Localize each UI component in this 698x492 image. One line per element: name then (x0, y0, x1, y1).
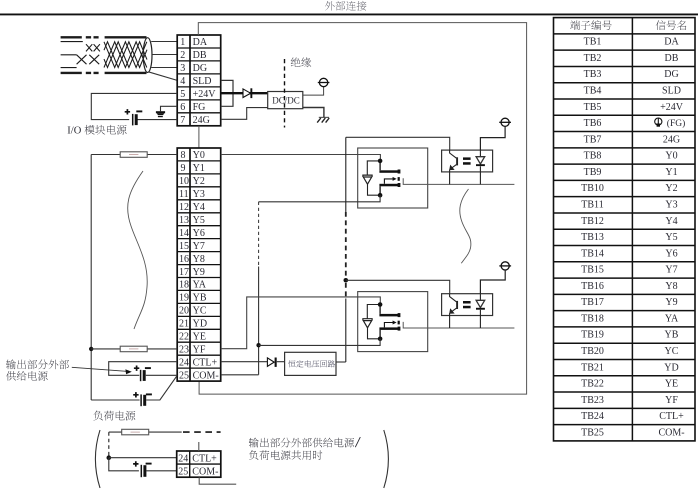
svg-text:TB9: TB9 (584, 167, 602, 178)
output circuit YF box (358, 292, 428, 352)
svg-text:TB20: TB20 (581, 346, 604, 357)
svg-text:Y3: Y3 (193, 189, 205, 200)
wire +24V pin5 to power loop (91, 93, 177, 119)
battery shared supply (133, 461, 152, 477)
svg-text:TB13: TB13 (581, 232, 604, 243)
wire CTL+ to external supply battery (109, 362, 178, 376)
terminal block pins 1-7 (177, 35, 221, 126)
wire to CTL+ bottom (109, 457, 177, 459)
svg-text:2: 2 (180, 50, 185, 61)
terminal circle load YF (499, 262, 511, 270)
left power bus (90, 155, 92, 401)
svg-text:YA: YA (665, 313, 679, 324)
svg-text:YD: YD (664, 362, 678, 373)
svg-text:Y1: Y1 (193, 163, 205, 174)
svg-text:YA: YA (193, 280, 207, 291)
wire source 2 to COM bus (259, 339, 381, 346)
svg-text:COM-: COM- (658, 427, 684, 438)
svg-text:Y7: Y7 (193, 241, 205, 252)
svg-text:14: 14 (179, 228, 189, 239)
table TB6 ground symbol (655, 118, 686, 129)
svg-text:DB: DB (665, 53, 679, 64)
wire Y0 left with fuse F1 (91, 154, 177, 156)
svg-text:Y3: Y3 (665, 200, 677, 211)
battery external supply (134, 366, 151, 382)
wire YF to drain 2 (221, 297, 381, 349)
optocoupler Y0 (442, 150, 493, 172)
svg-text:CTL+: CTL+ (193, 357, 218, 368)
svg-text:TB14: TB14 (581, 248, 604, 259)
svg-text:21: 21 (179, 319, 189, 330)
COM- internal bus (221, 202, 259, 375)
svg-text:18: 18 (179, 280, 189, 291)
svg-text:Y0: Y0 (193, 150, 205, 161)
diode D1 on +24V line (243, 88, 252, 98)
wire pair to pin 3 DG (151, 67, 177, 69)
svg-text:Y9: Y9 (193, 267, 205, 278)
svg-text:DC/DC: DC/DC (272, 96, 300, 106)
wire SLD-FG bracket (221, 80, 233, 106)
svg-text:1: 1 (180, 37, 185, 48)
continuation curve right (460, 189, 471, 263)
label isolation (291, 57, 311, 67)
junction dot source Y0 (378, 193, 383, 198)
terminal block pins 8-25 (177, 148, 221, 381)
wire DC/DC to chassis ground (303, 108, 324, 118)
wire pair to pin 1 DA (151, 41, 177, 43)
svg-text:TB15: TB15 (581, 265, 604, 276)
svg-text:DB: DB (193, 50, 207, 61)
DC/DC converter (268, 92, 303, 109)
internal supply bus (345, 137, 347, 362)
wire terminal to LED 2 (480, 270, 505, 294)
svg-text:19: 19 (179, 293, 189, 304)
svg-text:25: 25 (179, 370, 189, 381)
svg-text:11: 11 (179, 189, 189, 200)
wire stub above bottom block (198, 442, 200, 451)
svg-text:10: 10 (179, 176, 189, 187)
svg-text:16: 16 (179, 254, 189, 265)
junction dot drain YF (378, 302, 383, 307)
signal table (554, 18, 696, 441)
coupling bars Y0 (463, 157, 471, 164)
fuse F2 (120, 346, 147, 352)
svg-text:24: 24 (179, 357, 189, 368)
svg-text:Y9: Y9 (665, 297, 677, 308)
svg-text:20: 20 (179, 306, 189, 317)
svg-text:DG: DG (664, 69, 678, 80)
svg-text:3: 3 (180, 63, 185, 74)
wire Y0 to drain (221, 155, 381, 161)
svg-text:DA: DA (664, 37, 679, 48)
svg-text:24: 24 (178, 454, 188, 465)
svg-text:TB19: TB19 (581, 330, 604, 341)
svg-text:5: 5 (180, 89, 185, 100)
svg-text:Y6: Y6 (665, 248, 677, 259)
zener diode Y0 (363, 161, 380, 195)
wire +24V thick (221, 92, 268, 94)
svg-text:Y4: Y4 (193, 202, 205, 213)
svg-text:Y2: Y2 (193, 176, 205, 187)
svg-text:YF: YF (665, 395, 678, 406)
svg-text:7: 7 (180, 115, 185, 126)
svg-text:25: 25 (178, 467, 188, 478)
wire constant voltage to bus (336, 361, 346, 363)
coupling bars YF (463, 301, 471, 308)
svg-text:CTL+: CTL+ (192, 454, 217, 465)
svg-text:TB10: TB10 (581, 183, 604, 194)
svg-text:Y6: Y6 (193, 228, 205, 239)
LED Y0 (476, 150, 485, 184)
battery load power (133, 392, 152, 406)
svg-text:TB7: TB7 (584, 134, 602, 145)
svg-text:22: 22 (179, 332, 189, 343)
wire fuse branch bottom (109, 432, 221, 458)
svg-text:TB5: TB5 (584, 102, 602, 113)
svg-text:TB8: TB8 (584, 151, 602, 162)
fuse F3 (122, 429, 149, 435)
phototransistor Y0 (450, 150, 458, 184)
svg-text:17: 17 (179, 267, 189, 278)
svg-text:FG: FG (193, 102, 206, 113)
svg-text:TB25: TB25 (581, 427, 604, 438)
svg-text:TB12: TB12 (581, 216, 604, 227)
LED YF (476, 294, 485, 328)
svg-text:TB1: TB1 (584, 37, 602, 48)
arrow label to battery (72, 367, 132, 374)
svg-text:TB22: TB22 (581, 379, 604, 390)
wire load power battery (91, 375, 177, 400)
svg-text:(FG): (FG) (667, 118, 685, 129)
junction dot drain Y0 (378, 159, 383, 164)
svg-text:SLD: SLD (193, 76, 212, 87)
constant voltage circuit box (285, 352, 336, 375)
svg-text:SLD: SLD (662, 86, 681, 97)
twisted pair cable (61, 37, 147, 73)
wire CTL+ to diode (221, 361, 285, 363)
wire pair to pin 2 DB (152, 54, 177, 56)
wire gate YF (403, 322, 514, 328)
MOSFET YF (379, 305, 400, 339)
svg-text:15: 15 (179, 241, 189, 252)
svg-text:YB: YB (665, 330, 679, 341)
wire collector circuit 2 (346, 280, 450, 293)
optocoupler YF (442, 294, 493, 316)
wire terminal to LED 1 (480, 126, 505, 150)
label external supply (6, 359, 69, 369)
parenthesis left (95, 430, 100, 488)
junction dot source YF (378, 337, 383, 342)
svg-text:24G: 24G (663, 134, 680, 145)
junction dot supply bus (344, 278, 349, 283)
svg-text:CTL+: CTL+ (659, 411, 684, 422)
svg-text:COM-: COM- (193, 370, 219, 381)
diode D2 (267, 358, 276, 367)
svg-text:Y1: Y1 (665, 167, 677, 178)
svg-text:YE: YE (193, 332, 206, 343)
svg-text:Y4: Y4 (665, 216, 677, 227)
battery I/O module power (125, 109, 143, 125)
svg-text:Y5: Y5 (665, 232, 677, 243)
svg-text:DA: DA (193, 37, 208, 48)
svg-text:+24V: +24V (193, 89, 217, 100)
cable shield ellipse (143, 38, 152, 73)
wire shield to pin 4 SLD (148, 72, 177, 81)
label shared supply note (249, 437, 360, 447)
wire stub below bottom block (199, 477, 236, 484)
svg-text:Y2: Y2 (665, 183, 677, 194)
wire collector circuit 1 (346, 137, 450, 150)
svg-text:DG: DG (193, 63, 207, 74)
svg-text:TB21: TB21 (581, 362, 604, 373)
svg-text:TB16: TB16 (581, 281, 604, 292)
wire source 1 to COM bus (259, 195, 381, 202)
output circuit Y0 box (358, 148, 428, 208)
svg-text:TB18: TB18 (581, 313, 604, 324)
wire COM- outer loop (198, 23, 526, 395)
terminal block bottom pins 24-25 (177, 451, 221, 478)
wire to COM- bottom via battery (109, 458, 177, 471)
isolation dashed line (284, 59, 286, 128)
svg-text:YF: YF (193, 344, 206, 355)
svg-text:YC: YC (193, 306, 207, 317)
svg-text:4: 4 (180, 76, 185, 87)
svg-text:23: 23 (179, 344, 189, 355)
MOSFET Y0 (379, 161, 400, 195)
svg-text:8: 8 (181, 150, 186, 161)
svg-text:TB11: TB11 (581, 200, 603, 211)
wire YF left with fuse F2 (91, 348, 177, 350)
junction dot bottom (107, 455, 112, 460)
svg-text:TB3: TB3 (584, 69, 602, 80)
svg-text:Y0: Y0 (665, 151, 677, 162)
wire 24G to DC/DC (221, 108, 268, 120)
svg-text:TB17: TB17 (581, 297, 604, 308)
junction dot YF bus (89, 347, 93, 351)
chassis ground (317, 117, 329, 122)
svg-text:TB2: TB2 (584, 53, 602, 64)
svg-text:YC: YC (665, 346, 679, 357)
svg-text:12: 12 (179, 202, 189, 213)
svg-text:TB23: TB23 (581, 395, 604, 406)
svg-text:Y7: Y7 (665, 265, 677, 276)
terminal circle load Y0 (499, 118, 511, 126)
svg-text:Y5: Y5 (193, 215, 205, 226)
svg-text:YB: YB (193, 293, 207, 304)
svg-text:+24V: +24V (660, 102, 684, 113)
table rows (581, 37, 684, 439)
table headers (570, 20, 612, 30)
wire gate Y0 (403, 178, 514, 184)
svg-text:TB6: TB6 (584, 118, 602, 129)
svg-text:YE: YE (665, 379, 678, 390)
zener diode YF (363, 305, 380, 339)
svg-text:TB24: TB24 (581, 411, 604, 422)
svg-text:TB4: TB4 (584, 86, 602, 97)
svg-text:Y8: Y8 (665, 281, 677, 292)
svg-text:I/O: I/O (67, 126, 81, 137)
continuation curve left (128, 171, 148, 329)
fuse F1 (120, 152, 147, 158)
svg-text:9: 9 (181, 163, 186, 174)
svg-text:6: 6 (180, 102, 185, 113)
parenthesis right (384, 430, 389, 488)
phototransistor YF (450, 294, 458, 328)
svg-text:YD: YD (193, 319, 207, 330)
svg-text:COM-: COM- (192, 467, 218, 478)
wire DC/DC to FG terminal (303, 87, 324, 95)
svg-text:13: 13 (179, 215, 189, 226)
junction dot COM bus (256, 343, 260, 347)
svg-text:24G: 24G (193, 115, 210, 126)
ground symbol FG (156, 106, 177, 117)
svg-text:Y8: Y8 (193, 254, 205, 265)
terminal circle FG (318, 78, 330, 86)
label load power (93, 411, 135, 421)
